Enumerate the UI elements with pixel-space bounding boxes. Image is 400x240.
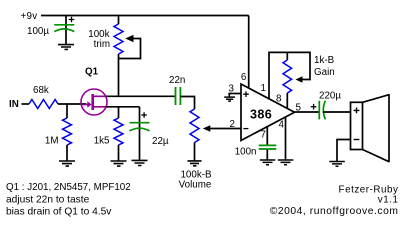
svg-text:68k: 68k bbox=[33, 85, 49, 96]
resistor R4 1k5 zigzag bbox=[114, 118, 123, 145]
trimpot wiper wire bbox=[119, 39, 141, 59]
svg-text:7: 7 bbox=[261, 130, 266, 141]
wire pin1 to gain loop bbox=[269, 52, 310, 98]
speaker plus terminal bbox=[354, 108, 360, 114]
wire pin6 drop bbox=[248, 16, 250, 89]
wire pin5 output bbox=[295, 111, 319, 113]
ground at pin3 bbox=[228, 93, 241, 95]
svg-text:6: 6 bbox=[241, 72, 247, 83]
potentiometer R5 bottom lead bbox=[194, 143, 196, 161]
ground under R3 bbox=[59, 161, 75, 166]
transistor Q1 channel bar bbox=[91, 94, 94, 110]
gain pot R6 leads bbox=[286, 52, 288, 108]
speaker body bbox=[351, 102, 363, 149]
svg-text:v1.1: v1.1 bbox=[378, 195, 399, 206]
svg-text:Q1 : J201, 2N5457, MPF102: Q1 : J201, 2N5457, MPF102 bbox=[6, 182, 131, 193]
svg-text:©2004, runoffgroove.com: ©2004, runoffgroove.com bbox=[270, 206, 399, 217]
svg-text:Gain: Gain bbox=[314, 67, 335, 78]
resistor R3 1M lead bbox=[66, 104, 68, 161]
ground under R4 bbox=[111, 161, 127, 166]
ground under C1 bbox=[58, 45, 74, 50]
gain pot R6 zigzag bbox=[283, 60, 292, 93]
ground under speaker bbox=[329, 162, 345, 167]
wire 22n to volume bbox=[180, 97, 194, 110]
trimpot R1 100k zigzag bbox=[114, 24, 123, 54]
transistor Q1 circle bbox=[81, 89, 107, 115]
polarity plus C5 bbox=[311, 104, 317, 110]
wire speaker minus to ground bbox=[337, 140, 351, 162]
svg-text:1M: 1M bbox=[45, 136, 59, 147]
svg-text:1k5: 1k5 bbox=[94, 136, 110, 147]
gain pot wiper arrow bbox=[296, 76, 303, 82]
svg-text:+9v: +9v bbox=[21, 11, 38, 22]
capacitor C5 220u plates bbox=[319, 101, 325, 120]
svg-text:adjust 22n to taste: adjust 22n to taste bbox=[6, 195, 90, 206]
svg-text:1: 1 bbox=[261, 83, 266, 94]
wire IN to R2 bbox=[22, 103, 30, 105]
trimpot R1 leads bbox=[118, 16, 120, 97]
svg-text:22n: 22n bbox=[169, 75, 185, 86]
svg-text:trim: trim bbox=[94, 39, 110, 50]
svg-text:1k-B: 1k-B bbox=[314, 55, 335, 66]
wire wiper to pin2 bbox=[210, 128, 242, 130]
op-amp U1 386 triangle bbox=[241, 84, 295, 141]
resistor R2 68k bbox=[29, 100, 58, 109]
svg-text:4: 4 bbox=[279, 120, 285, 131]
svg-text:3: 3 bbox=[229, 84, 235, 95]
svg-text:100n: 100n bbox=[235, 147, 257, 158]
svg-text:IN: IN bbox=[9, 99, 19, 110]
svg-text:8: 8 bbox=[276, 94, 282, 105]
speaker cone bbox=[363, 94, 390, 162]
ground under R5 bbox=[188, 161, 202, 166]
svg-text:220µ: 220µ bbox=[319, 91, 341, 102]
capacitor C1 100u plates bbox=[54, 25, 74, 32]
capacitor C4 100n lead pin7 bbox=[266, 127, 268, 160]
svg-text:bias drain of Q1 to 4.5v: bias drain of Q1 to 4.5v bbox=[6, 206, 112, 217]
capacitor C1 100u lead bbox=[65, 16, 67, 45]
capacitor C3 22n plates bbox=[176, 87, 181, 105]
pin2 minus bbox=[243, 128, 248, 130]
potentiometer R5 wiper arrow bbox=[203, 125, 211, 132]
ground under C4 bbox=[260, 160, 276, 165]
capacitor C4 100n plates bbox=[259, 145, 277, 149]
svg-text:Q1: Q1 bbox=[85, 67, 99, 78]
svg-text:386: 386 bbox=[250, 108, 272, 122]
svg-text:22µ: 22µ bbox=[152, 136, 169, 147]
ground under C2 bbox=[132, 160, 148, 165]
capacitor C2 22u leads bbox=[139, 107, 141, 160]
speaker minus terminal bbox=[354, 139, 360, 141]
wire drain to 22n bbox=[106, 95, 175, 97]
svg-text:2: 2 bbox=[230, 119, 235, 130]
ground under pin4 bbox=[278, 160, 294, 165]
wire pin4 to ground bbox=[285, 117, 287, 160]
polarity plus C2 bbox=[141, 112, 147, 118]
svg-text:100µ: 100µ bbox=[27, 26, 49, 37]
pin3 plus bbox=[243, 91, 249, 97]
wire +9V rail bbox=[41, 15, 249, 17]
wire C5 to speaker bbox=[323, 111, 351, 113]
potentiometer R5 volume zigzag bbox=[190, 109, 199, 143]
wire source run bbox=[106, 106, 140, 108]
resistor R4 1k5 leads bbox=[118, 107, 120, 161]
trimpot wiper arrow bbox=[125, 35, 133, 42]
wire R2 to gate, node at 1M bbox=[58, 103, 87, 105]
capacitor C2 22u plates bbox=[130, 123, 150, 131]
polarity plus C1 bbox=[69, 17, 75, 23]
transistor Q1 drain/source stubs bbox=[94, 96, 107, 107]
resistor R3 1M zigzag bbox=[63, 118, 72, 145]
transistor Q1 gate arrow bbox=[83, 104, 88, 106]
svg-text:Volume: Volume bbox=[179, 180, 212, 191]
